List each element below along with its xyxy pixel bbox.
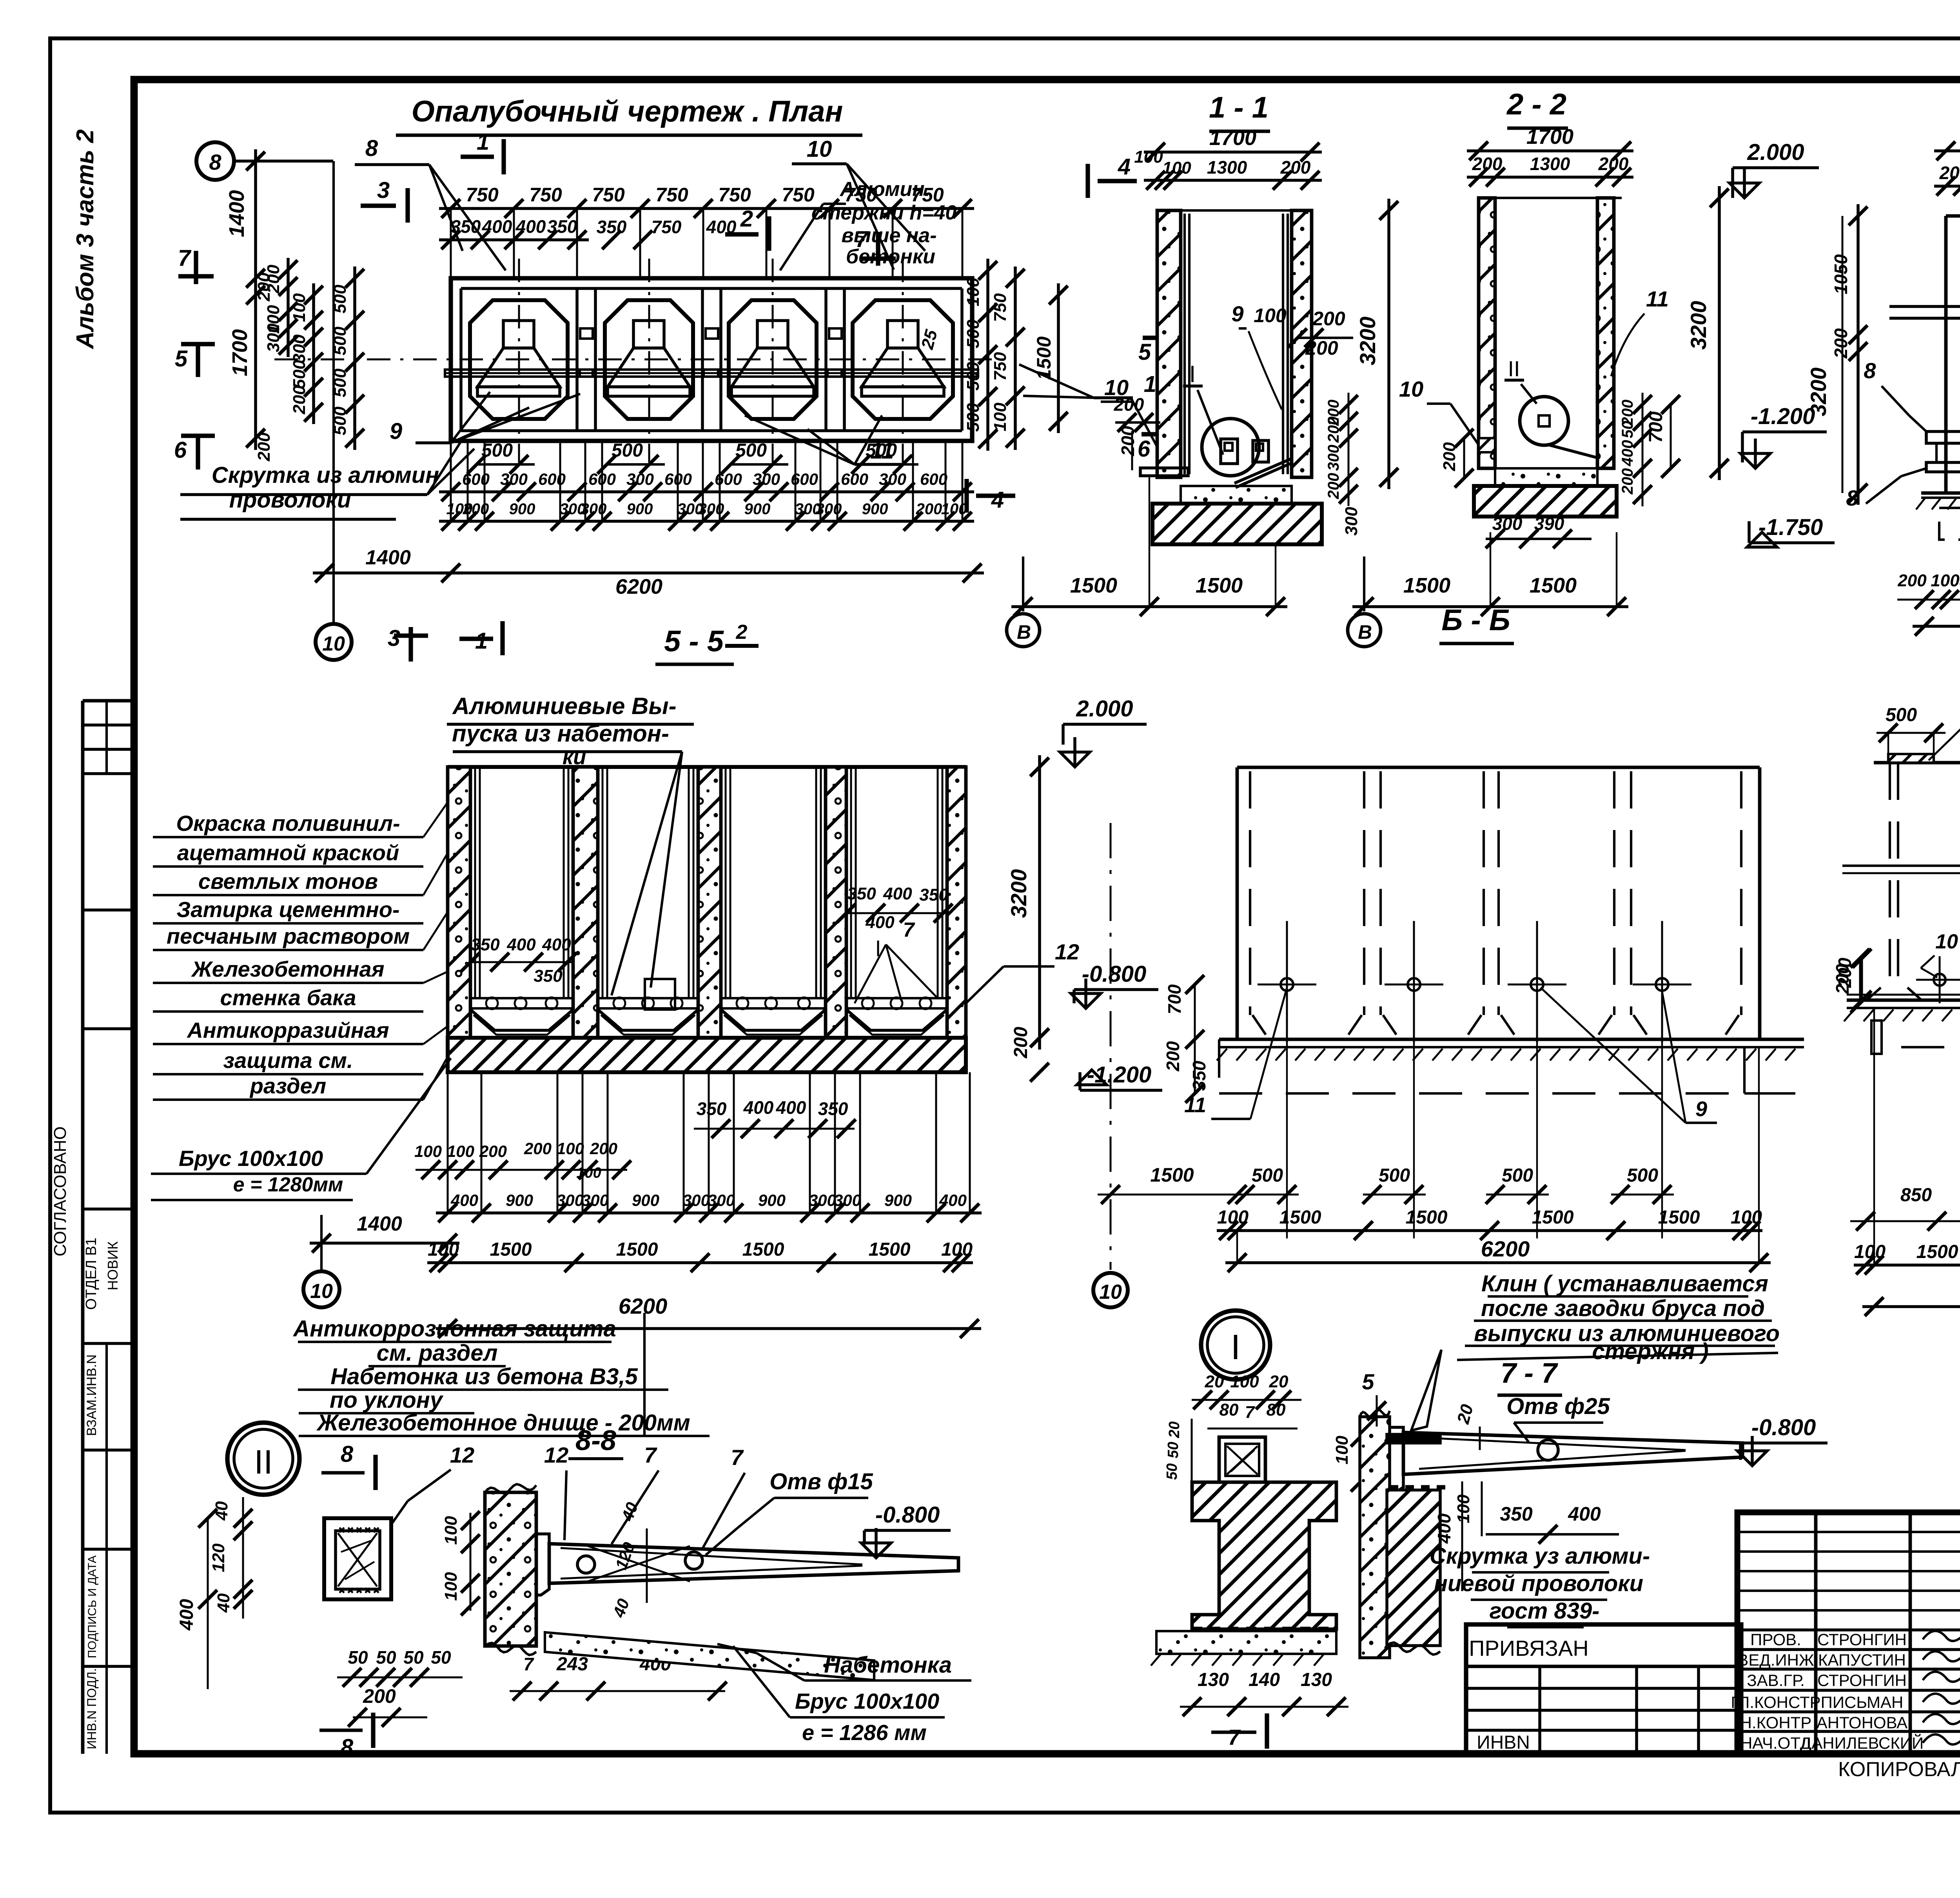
svg-text:700: 700: [1646, 412, 1666, 443]
svg-text:10: 10: [807, 136, 832, 162]
plan cell centerline 2: [648, 259, 650, 462]
svg-text:1500: 1500: [1658, 1207, 1700, 1228]
svg-text:400: 400: [1568, 1503, 1601, 1525]
section 7-7 circles and labels: [1934, 974, 1945, 986]
section 1-1 wheel detail: [1202, 419, 1259, 476]
svg-text:750: 750: [991, 352, 1010, 381]
section 1-1 right wall: [1292, 210, 1312, 477]
svg-text:100: 100: [290, 293, 309, 322]
section 2-2 floor screed: [1495, 468, 1597, 486]
svg-text:2.000: 2.000: [1747, 140, 1804, 165]
svg-text:100: 100: [964, 277, 983, 306]
svg-text:песчаным раствором: песчаным раствором: [167, 924, 410, 948]
svg-text:750: 750: [991, 293, 1010, 322]
svg-text:400: 400: [939, 1191, 967, 1209]
svg-text:50: 50: [1165, 1442, 1181, 1458]
svg-text:900: 900: [627, 500, 653, 518]
svg-text:гост 839-: гост 839-: [1490, 1598, 1600, 1624]
detail 8-8 wall fragment: [485, 1492, 536, 1646]
title block outer: [1737, 1512, 1960, 1754]
svg-text:7: 7: [178, 245, 192, 271]
svg-text:3200: 3200: [1686, 301, 1711, 350]
plan connector plates: [580, 328, 593, 339]
left stamp column boxes: [83, 699, 134, 703]
svg-text:750: 750: [718, 184, 751, 206]
section 2-2 dim 1700: [1467, 149, 1633, 152]
plan dim 1500 right: [1057, 283, 1060, 433]
svg-text:Н.КОНТР: Н.КОНТР: [1740, 1713, 1812, 1732]
grid circle B under 2-2: [1363, 557, 1365, 611]
section 5-5 bay 2 rod: [598, 998, 698, 1008]
svg-text:7: 7: [903, 919, 915, 941]
plan partitions: [575, 288, 579, 431]
svg-text:6200: 6200: [619, 1294, 668, 1318]
plan funnel 1: [503, 321, 534, 348]
svg-text:400: 400: [515, 216, 546, 237]
section 6-6 underground dashed: [1219, 1092, 1803, 1095]
svg-text:750: 750: [652, 217, 682, 237]
section 7-7 pads: [1888, 754, 1934, 763]
plan cell centerline 1: [518, 259, 520, 462]
svg-text:50: 50: [348, 1647, 368, 1668]
detail I second block: [1387, 1490, 1440, 1646]
svg-text:350: 350: [919, 885, 948, 905]
svg-text:ИНВ.N ПОДЛ.: ИНВ.N ПОДЛ.: [85, 1668, 99, 1749]
svg-text:500: 500: [735, 440, 767, 461]
svg-text:1500: 1500: [1033, 336, 1055, 380]
svg-text:1500: 1500: [1279, 1207, 1321, 1228]
annotation leader: [423, 1027, 447, 1044]
svg-text:Набетонка из бетона В3,5: Набетонка из бетона В3,5: [330, 1364, 638, 1389]
svg-text:200: 200: [254, 432, 274, 462]
svg-text:100: 100: [1162, 158, 1191, 178]
section 5-5 bay 2 hopper: [598, 1010, 698, 1030]
svg-text:900: 900: [744, 500, 771, 518]
svg-text:300: 300: [290, 334, 309, 363]
svg-text:В: В: [1358, 621, 1372, 643]
svg-text:7: 7: [523, 1654, 534, 1674]
section 7-7 top line: [1874, 761, 1960, 765]
svg-text:5: 5: [1138, 339, 1151, 365]
svg-text:9: 9: [390, 419, 402, 444]
svg-text:1400: 1400: [365, 546, 411, 569]
svg-text:после заводки бруса под: после заводки бруса под: [1481, 1296, 1765, 1321]
svg-text:2.000: 2.000: [1076, 696, 1133, 721]
svg-text:500: 500: [1379, 1165, 1410, 1186]
plan right rotated dims: [986, 259, 989, 451]
plan hopper octagon 2: [605, 300, 693, 419]
svg-text:500: 500: [1886, 705, 1917, 725]
svg-text:II: II: [1508, 356, 1520, 381]
plan hopper octagon 1: [470, 300, 568, 419]
svg-text:Отв ф25: Отв ф25: [1506, 1394, 1610, 1419]
svg-text:100: 100: [1854, 1242, 1886, 1262]
svg-text:1: 1: [477, 129, 489, 155]
section 3-3 left brackets 8: [1926, 431, 1960, 443]
section 6-6 dim 1500 left: [1098, 1194, 1250, 1196]
section 2-2 dim row 200-1300-200: [1467, 176, 1633, 179]
detail I wall fragment right: [1360, 1417, 1390, 1658]
section 1-1 right small dims: [1348, 393, 1350, 506]
svg-text:600: 600: [715, 470, 742, 488]
plan left dim chain 1400-1700: [254, 149, 257, 450]
detail I ground band: [1156, 1631, 1336, 1654]
svg-text:350: 350: [534, 966, 563, 986]
section 6-6 dim row 1500x4: [1217, 1229, 1762, 1232]
section 3-3 ground: [1921, 491, 1960, 495]
svg-text:ОТДЕЛ В1: ОТДЕЛ В1: [83, 1238, 100, 1310]
svg-text:-0.800: -0.800: [1082, 961, 1146, 987]
svg-text:КОПИРОВАЛ: КОРШУНОВА: КОПИРОВАЛ: КОРШУНОВА: [1838, 1758, 1960, 1781]
svg-text:3: 3: [377, 178, 390, 203]
detail I wedge klin: [1411, 1350, 1441, 1430]
section 6-6 hidden walls dashed: [1249, 771, 1251, 1015]
svg-text:500: 500: [1252, 1165, 1283, 1186]
svg-text:300: 300: [1342, 507, 1361, 536]
svg-text:100: 100: [1454, 1494, 1473, 1523]
svg-text:11: 11: [1646, 286, 1669, 311]
svg-text:750: 750: [782, 184, 815, 206]
svg-text:Набетонка: Набетонка: [824, 1652, 952, 1678]
section 5-5 bay 1 hopper: [470, 1010, 573, 1030]
svg-text:100: 100: [1134, 147, 1163, 167]
plan grid circle 10: [316, 624, 352, 660]
svg-text:11: 11: [1184, 1093, 1206, 1117]
svg-text:1500: 1500: [1532, 1207, 1574, 1228]
svg-text:900: 900: [758, 1191, 786, 1209]
svg-text:5: 5: [1362, 1369, 1374, 1394]
plan rod 3: [704, 370, 842, 377]
svg-text:100: 100: [941, 1239, 973, 1260]
svg-text:750: 750: [655, 184, 688, 206]
section 2-2 right wall: [1597, 198, 1614, 468]
svg-text:раздел: раздел: [249, 1073, 326, 1098]
svg-text:II: II: [254, 1443, 273, 1481]
svg-text:200: 200: [1831, 328, 1851, 359]
svg-text:300: 300: [753, 470, 780, 488]
section 1-1 floor screed: [1181, 486, 1292, 504]
svg-text:е = 1286 мм: е = 1286 мм: [802, 1720, 927, 1745]
svg-text:100: 100: [1217, 1207, 1249, 1228]
plan rod 4: [828, 370, 978, 377]
section 2-2 foundation: [1474, 486, 1617, 517]
svg-text:500: 500: [330, 285, 350, 314]
svg-text:7: 7: [644, 1443, 657, 1467]
section 5-5 dim 6200: [436, 1327, 981, 1330]
section 5-5 wall 5: [947, 767, 966, 1038]
section 5-5 wall 1: [448, 767, 470, 1038]
svg-text:200: 200: [1598, 154, 1629, 174]
svg-text:3200: 3200: [1006, 869, 1031, 918]
svg-text:200: 200: [1835, 957, 1855, 988]
plan funnel 3: [757, 321, 788, 348]
svg-text:Брус 100х100: Брус 100х100: [179, 1146, 323, 1171]
section 3-3 foundation dashed: [1939, 508, 1960, 540]
detail II drawing: [324, 1518, 391, 1599]
plan rod 1: [445, 370, 593, 377]
section 5-5 bay 3 formwork: [725, 767, 727, 998]
svg-text:80: 80: [1220, 1400, 1239, 1419]
svg-text:100: 100: [991, 402, 1010, 431]
plan grid line 10 vertical: [332, 161, 335, 622]
svg-text:500: 500: [964, 362, 983, 391]
section 5-5 bay 1 formwork: [474, 767, 476, 998]
annotation leader: [423, 1058, 447, 1100]
plan cell centerline 4: [902, 259, 904, 462]
svg-text:500: 500: [330, 406, 350, 435]
detail I formwork dashes: [1192, 1627, 1202, 1632]
section 5-5 wall 4: [826, 767, 846, 1038]
section 1-1 dim 1700: [1144, 150, 1322, 154]
section 5-5 below dims 1500: [427, 1261, 973, 1264]
plan rod 2: [580, 370, 718, 377]
svg-text:проволоки: проволоки: [229, 487, 351, 513]
svg-text:В: В: [1017, 621, 1031, 643]
detail I angle and bar: [1390, 1427, 1403, 1492]
detail 8-8 aluminium bar: [549, 1544, 958, 1583]
section 2-2 dim 3200: [1718, 186, 1721, 480]
svg-text:Антикоррозионная защита: Антикоррозионная защита: [292, 1316, 616, 1341]
svg-text:1500: 1500: [1196, 574, 1243, 597]
svg-text:200: 200: [1163, 1041, 1183, 1071]
section 7-7 extension verticals: [1873, 1008, 1875, 1265]
svg-text:см. раздел: см. раздел: [377, 1340, 498, 1366]
svg-text:2 - 2: 2 - 2: [1506, 88, 1566, 121]
svg-text:ИНВN: ИНВN: [1477, 1732, 1530, 1753]
section 5-5 below dims 900-300: [436, 1211, 982, 1215]
svg-text:400: 400: [1434, 1513, 1454, 1544]
svg-text:400: 400: [1619, 440, 1636, 467]
section 7-7 hidden walls: [1889, 763, 1891, 988]
section 1-1 left wall: [1157, 210, 1181, 477]
svg-text:400: 400: [883, 884, 912, 903]
svg-text:50: 50: [376, 1647, 396, 1668]
svg-text:1400: 1400: [225, 190, 249, 237]
svg-text:200: 200: [290, 385, 309, 415]
section 6-6 dim 6200: [1225, 1261, 1771, 1264]
section 5-5 bay 4 rod: [846, 998, 947, 1008]
section 6-6 hopper flares: [1252, 1015, 1266, 1035]
svg-text:1700: 1700: [228, 329, 252, 376]
section 5-5 dim 3200: [1038, 755, 1041, 1050]
detail 8-8 angle: [536, 1534, 549, 1595]
section 3-3 dim 1700: [1934, 149, 1960, 152]
svg-text:140: 140: [1249, 1670, 1280, 1690]
section 5-5 grid line 10: [320, 1215, 323, 1271]
svg-text:100: 100: [414, 1142, 442, 1160]
svg-text:ВЗАМ.ИНВ.N: ВЗАМ.ИНВ.N: [84, 1354, 99, 1436]
svg-text:300: 300: [834, 1191, 861, 1209]
svg-text:300: 300: [879, 470, 906, 488]
svg-text:100: 100: [447, 1142, 474, 1160]
svg-text:ГЛ.КОНСТР: ГЛ.КОНСТР: [1731, 1693, 1820, 1711]
svg-text:1050: 1050: [1831, 254, 1851, 294]
title block upper rows: [1737, 1531, 1960, 1533]
svg-text:6: 6: [174, 437, 187, 463]
svg-text:200: 200: [524, 1139, 552, 1158]
svg-text:500: 500: [612, 440, 643, 461]
svg-text:ПРИВЯЗАН: ПРИВЯЗАН: [1469, 1636, 1588, 1661]
svg-text:3: 3: [388, 625, 400, 651]
annotation leader: [423, 913, 447, 950]
svg-text:4: 4: [1118, 154, 1131, 179]
svg-text:10: 10: [310, 1280, 333, 1303]
svg-text:100: 100: [1332, 1436, 1352, 1465]
svg-text:Опалубочный чертеж . План: Опалубочный чертеж . План: [412, 95, 843, 128]
grid circle B under 1-1: [1022, 557, 1024, 611]
svg-text:350: 350: [471, 935, 500, 954]
svg-text:350: 350: [451, 216, 481, 237]
svg-text:400: 400: [776, 1097, 806, 1118]
svg-text:600: 600: [538, 470, 566, 488]
section 7-7 underground dashed: [1901, 1046, 1960, 1048]
svg-text:10: 10: [1399, 377, 1423, 401]
svg-text:400: 400: [176, 1599, 197, 1631]
svg-text:ПИСЬМАН: ПИСЬМАН: [1821, 1693, 1904, 1711]
section 5-5 bay 1 rod: [470, 998, 573, 1008]
section 5-5 wall 3: [698, 767, 721, 1038]
svg-text:300: 300: [500, 470, 528, 488]
svg-text:80: 80: [1267, 1400, 1286, 1419]
svg-text:1400: 1400: [357, 1213, 402, 1235]
plan grid circle 8: [196, 142, 234, 180]
svg-text:I: I: [1230, 1328, 1240, 1367]
section 2-2 strut: [1548, 445, 1597, 458]
svg-text:200: 200: [590, 1139, 617, 1158]
svg-text:выше на-: выше на-: [841, 224, 936, 247]
svg-text:200: 200: [1619, 468, 1636, 495]
plan hopper octagon 3: [729, 300, 817, 419]
svg-text:1500: 1500: [1070, 574, 1117, 597]
svg-text:100: 100: [576, 1165, 601, 1181]
svg-text:ЗАВ.ГР.: ЗАВ.ГР.: [1747, 1671, 1805, 1690]
svg-text:7 - 7: 7 - 7: [1501, 1358, 1558, 1389]
svg-text:1300: 1300: [1530, 154, 1570, 174]
section 2-2 left wall: [1479, 198, 1495, 468]
plan bottom dim row 600-300: [439, 490, 974, 493]
svg-text:АНТОНОВА: АНТОНОВА: [1817, 1713, 1907, 1732]
svg-text:500: 500: [866, 440, 897, 461]
svg-text:1500: 1500: [742, 1239, 784, 1260]
section 5-5 bay 3 hopper: [721, 1010, 826, 1030]
svg-text:Отв ф15: Отв ф15: [769, 1469, 873, 1494]
svg-text:6200: 6200: [1481, 1236, 1530, 1261]
svg-text:500: 500: [290, 360, 309, 389]
svg-text:Скрутка из алюмин: Скрутка из алюмин: [212, 462, 439, 488]
svg-text:100: 100: [1731, 1207, 1762, 1228]
svg-text:ВЕД.ИНЖ: ВЕД.ИНЖ: [1737, 1651, 1814, 1669]
section 3-3 body: [1944, 216, 1948, 493]
svg-text:400: 400: [743, 1097, 774, 1118]
section 5-5 bottom slab: [448, 1038, 966, 1072]
title block signature columns: [1814, 1512, 1818, 1754]
svg-text:350: 350: [1500, 1503, 1533, 1525]
svg-text:900: 900: [632, 1191, 659, 1209]
svg-text:120: 120: [209, 1543, 228, 1572]
svg-text:СТРОНГИН: СТРОНГИН: [1817, 1630, 1907, 1649]
svg-text:7: 7: [731, 1445, 744, 1470]
plan funnel 4: [887, 321, 918, 348]
section 5-5 bay 2 formwork: [602, 767, 604, 998]
svg-text:ацетатной краской: ацетатной краской: [177, 840, 399, 865]
section 6-6 wire circles: [1281, 978, 1293, 991]
svg-text:ниевой проволоки: ниевой проволоки: [1434, 1571, 1643, 1596]
plan cell centerline 3: [772, 259, 774, 462]
svg-text:500: 500: [330, 326, 350, 355]
detail 8-8 bar holes: [577, 1556, 595, 1573]
svg-text:8: 8: [341, 1735, 354, 1760]
svg-text:3200: 3200: [1355, 317, 1380, 366]
svg-text:500: 500: [1502, 1165, 1533, 1186]
svg-text:1300: 1300: [1207, 157, 1247, 178]
svg-text:Брус 100х100: Брус 100х100: [795, 1689, 939, 1713]
svg-text:900: 900: [506, 1191, 533, 1209]
svg-text:10: 10: [1935, 930, 1958, 953]
section 1-1 dim row 100-1300-200: [1144, 179, 1322, 182]
section 5-5 bay2 insert: [645, 979, 675, 1010]
section 2-2 circle detail II: [1520, 397, 1568, 445]
svg-text:7: 7: [1228, 1725, 1241, 1749]
section 7-7 left step: [1871, 1021, 1882, 1054]
svg-text:Затирка цементно-: Затирка цементно-: [176, 897, 399, 922]
svg-text:стенка бака: стенка бака: [220, 985, 356, 1010]
detail II circle: [227, 1423, 299, 1495]
svg-text:6: 6: [1138, 436, 1151, 462]
plan bottom dim 1400: [313, 571, 463, 575]
svg-text:400: 400: [506, 935, 536, 954]
svg-text:50: 50: [403, 1647, 424, 1668]
section 1-1 base bar left: [1140, 468, 1188, 476]
svg-text:Альбом 3 часть 2: Альбом 3 часть 2: [72, 129, 99, 350]
svg-text:5 - 5: 5 - 5: [664, 625, 724, 658]
svg-text:350: 350: [1189, 1060, 1209, 1091]
svg-text:20: 20: [1205, 1372, 1224, 1391]
section 7-7 dim 6200: [1862, 1305, 1960, 1308]
svg-text:100: 100: [441, 1516, 461, 1545]
section 1-1 top ticks: [1156, 209, 1310, 212]
svg-text:е = 1280мм: е = 1280мм: [233, 1173, 343, 1196]
section 5-5 bay 4 formwork: [850, 767, 852, 998]
svg-text:130: 130: [1301, 1670, 1332, 1690]
svg-text:12: 12: [450, 1443, 474, 1467]
svg-text:300: 300: [1492, 513, 1523, 534]
plan hopper octagon 4: [853, 300, 953, 419]
svg-text:200: 200: [916, 500, 942, 518]
plan top dim row 350-400: [439, 238, 589, 241]
svg-text:1700: 1700: [1209, 126, 1256, 150]
svg-text:300: 300: [682, 1191, 710, 1209]
svg-text:400: 400: [542, 935, 571, 954]
section 5-5 top line: [448, 765, 966, 769]
svg-text:1500: 1500: [490, 1239, 532, 1260]
svg-text:200: 200: [479, 1142, 507, 1160]
svg-text:1500: 1500: [869, 1239, 911, 1260]
detail circle I: [1201, 1311, 1270, 1380]
svg-text:1700: 1700: [1526, 125, 1573, 149]
detail I timber box: [1219, 1437, 1265, 1482]
svg-text:-0.800: -0.800: [1751, 1415, 1816, 1440]
plan bottom dim 6200: [439, 571, 984, 575]
plan funnel 2: [633, 321, 664, 348]
svg-text:400: 400: [450, 1191, 478, 1209]
svg-text:200: 200: [1325, 417, 1342, 443]
svg-text:светлых тонов: светлых тонов: [198, 869, 378, 894]
svg-text:1500: 1500: [1406, 1207, 1448, 1228]
svg-text:1500: 1500: [1403, 574, 1450, 597]
svg-text:600: 600: [841, 470, 868, 488]
svg-text:243: 243: [556, 1654, 588, 1675]
svg-text:200: 200: [1897, 571, 1927, 590]
